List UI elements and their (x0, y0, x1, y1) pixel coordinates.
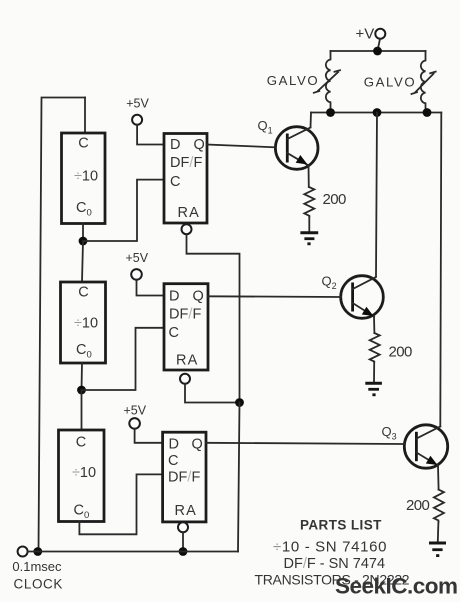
svg-text:DF/F: DF/F (170, 155, 203, 171)
galvo right arrow (412, 72, 436, 94)
wire FF3 Q to Q3 base (206, 443, 404, 444)
svg-text:RA: RA (176, 353, 199, 369)
wire +5V to FF3 D input (135, 429, 163, 443)
transistor Q2 (341, 276, 384, 319)
flip-flop FF3 (SN7474) (163, 432, 206, 522)
wire R1 to ground (308, 217, 310, 232)
transistor Q1 (275, 127, 318, 170)
ground G3 (429, 543, 446, 556)
wire clock line (28, 551, 238, 553)
svg-text:SeekIC.com: SeekIC.com (335, 574, 458, 599)
node FF3 reset junction (179, 547, 188, 556)
svg-text:C: C (168, 453, 178, 469)
resistor R1 200 (304, 187, 314, 217)
svg-text:200: 200 (406, 497, 429, 514)
counter U2 divide-by-10 (61, 282, 106, 363)
wire U1 output pin (82, 224, 84, 242)
svg-text:C0: C0 (74, 503, 90, 522)
wire collector rail (311, 112, 441, 114)
svg-text:C: C (170, 174, 180, 190)
wire +5V to FF2 D input (137, 280, 165, 296)
wire counter2 to counter3 link (81, 390, 83, 430)
svg-text:÷10: ÷10 (72, 465, 96, 481)
node FF2 reset bubble (180, 374, 190, 384)
wire R2 to ground (373, 362, 375, 382)
wire +V feed (378, 39, 381, 51)
svg-text:D: D (170, 137, 180, 153)
wire Q1 collector (310, 113, 313, 128)
svg-text:Q: Q (194, 137, 205, 153)
svg-text:C0: C0 (76, 342, 92, 361)
counter U3 divide-by-10 (59, 430, 105, 522)
wire FF3 reset to clock line (182, 532, 184, 551)
svg-text:+5V: +5V (126, 97, 149, 111)
svg-text:Q: Q (192, 437, 203, 453)
svg-text:÷10: ÷10 (74, 169, 98, 185)
svg-text:C: C (78, 136, 88, 152)
svg-text:DF/F: DF/F (168, 470, 201, 486)
galvo left arrow (314, 70, 340, 93)
svg-text:C: C (78, 285, 88, 301)
svg-text:÷10: ÷10 (74, 316, 98, 332)
svg-text:C: C (169, 325, 179, 341)
svg-text:GALVO: GALVO (364, 75, 416, 90)
svg-text:DF/F - SN 7474: DF/F - SN 7474 (284, 556, 386, 572)
wire +5V to FF1 D input (137, 125, 164, 145)
svg-text:D: D (169, 437, 179, 453)
node FF1 reset bubble (182, 224, 192, 234)
svg-text:CLOCK: CLOCK (14, 577, 64, 592)
svg-text:C: C (76, 435, 86, 451)
wire FF1 Q to Q1 base (207, 145, 275, 148)
wire FF1 reset to bus (187, 234, 240, 402)
svg-text:Q3: Q3 (382, 424, 397, 442)
resistor R2 200 (370, 333, 380, 362)
svg-text:RA: RA (175, 503, 198, 519)
node rail center (373, 108, 382, 117)
svg-text:DF/F: DF/F (169, 307, 202, 323)
svg-text:200: 200 (389, 344, 412, 361)
wire Q2 emitter (373, 317, 375, 334)
svg-text:RA: RA (178, 205, 201, 221)
wire R3 to ground (437, 522, 440, 542)
node +V rail junction (373, 47, 382, 56)
node galvo right bottom (423, 108, 432, 117)
wire clock left rail (39, 98, 86, 552)
wire FF2 Q to Q2 base (208, 295, 341, 298)
svg-text:C0: C0 (76, 200, 92, 219)
wire Q1 emitter (308, 166, 310, 188)
node clock junction (33, 547, 42, 556)
svg-text:÷10 - SN 74160: ÷10 - SN 74160 (273, 539, 387, 556)
wire Q2 collector (376, 113, 377, 277)
galvo coil right (421, 51, 426, 113)
svg-text:PARTS LIST: PARTS LIST (300, 518, 382, 533)
wire counter1 to counter2 link (82, 241, 83, 282)
wire node to FF1 clock (83, 180, 164, 241)
flip-flop FF2 (SN7474) (164, 284, 208, 370)
wire U2 output pin (81, 363, 84, 390)
svg-text:200: 200 (323, 191, 346, 208)
svg-text:Q2: Q2 (322, 274, 337, 292)
wire reset bus lower (238, 403, 240, 552)
svg-text:GALVO: GALVO (267, 73, 319, 88)
wire FF2 reset to bus (185, 384, 240, 403)
counter U1 divide-by-10 (62, 133, 106, 224)
flip-flop FF1 (SN7474) (164, 134, 207, 224)
node counter1 output junction (79, 237, 88, 246)
clock input terminal (18, 547, 28, 557)
wire Q3 collector (440, 113, 441, 427)
svg-text:D: D (169, 289, 179, 305)
wire Q3 emitter (437, 466, 440, 490)
node FF3 reset bubble (178, 522, 188, 532)
svg-text:Q1: Q1 (258, 118, 273, 136)
resistor R3 200 (434, 490, 444, 522)
svg-text:+5V: +5V (124, 404, 147, 418)
wire U3 output to FF3 clock (79, 474, 162, 534)
node counter2 output junction (77, 386, 86, 395)
node reset bus junction (235, 398, 244, 407)
svg-text:+V: +V (356, 26, 375, 43)
ground G1 (300, 233, 318, 244)
wire node to FF2 clock (82, 328, 165, 390)
svg-text:0.1msec: 0.1msec (12, 559, 62, 574)
svg-text:Q: Q (193, 289, 204, 305)
wire counter1 clock pin (84, 98, 86, 134)
node galvo left bottom (326, 108, 335, 117)
wire galvo top rail (331, 50, 426, 52)
ground G2 (365, 383, 382, 395)
transistor Q3 (404, 425, 447, 468)
galvo coil left (326, 51, 331, 113)
svg-text:+5V: +5V (126, 251, 149, 265)
